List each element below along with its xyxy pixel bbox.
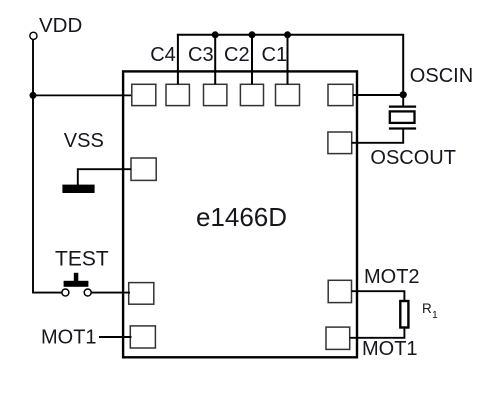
svg-text:VSS: VSS bbox=[64, 130, 104, 152]
wire C2 pad to bus bbox=[251, 35, 253, 85]
wire switch to TEST pad bbox=[91, 292, 130, 294]
pad MOT2 bbox=[328, 280, 351, 302]
label R1 bbox=[422, 301, 438, 321]
wire VDD rail to switch bbox=[32, 292, 62, 294]
pad OSCOUT bbox=[328, 132, 352, 154]
svg-text:e1466D: e1466D bbox=[196, 202, 287, 232]
junction VDD rail / pad wire bbox=[30, 92, 37, 99]
svg-text:MOT2: MOT2 bbox=[364, 266, 420, 288]
ground VSS (bar) bbox=[62, 185, 94, 193]
junction bus/C1 bbox=[284, 31, 291, 38]
IC U1 e1466D body bbox=[123, 71, 357, 357]
svg-text:OSCIN: OSCIN bbox=[410, 65, 473, 87]
pad MOT1 left bbox=[130, 326, 155, 348]
wire VSS pad to ground bbox=[78, 169, 131, 185]
junction bus/C3 bbox=[212, 31, 219, 38]
pad C4 bbox=[166, 84, 189, 105]
pad C1 bbox=[276, 84, 300, 105]
wire VDD vertical rail bbox=[32, 39, 34, 293]
wire C3 pad to bus bbox=[214, 35, 216, 85]
svg-text:MOT1: MOT1 bbox=[41, 327, 97, 349]
pad MOT1 right bbox=[326, 327, 350, 349]
wire crystal to OSCOUT pad bbox=[352, 142, 404, 144]
svg-text:C3: C3 bbox=[188, 44, 214, 66]
pad OSCIN bbox=[328, 84, 353, 105]
resistor R1 bbox=[400, 301, 408, 328]
junction bus/C2 bbox=[249, 31, 256, 38]
pad C3 bbox=[204, 84, 227, 105]
svg-text:C2: C2 bbox=[224, 44, 250, 66]
wire OSCIN pad to node bbox=[353, 94, 404, 96]
pad TEST bbox=[129, 283, 154, 305]
svg-text:MOT1: MOT1 bbox=[362, 338, 418, 360]
wire C1 pad to bus bbox=[287, 35, 289, 85]
wire MOT1 label to pad bbox=[99, 336, 132, 338]
pad VSS bbox=[131, 158, 156, 180]
wire MOT2 pad to R1 bbox=[352, 291, 405, 302]
pad P1 (VDD) bbox=[132, 84, 156, 105]
switch S1 TEST pushbutton bbox=[62, 273, 91, 296]
terminal VDD (open circle) bbox=[30, 32, 37, 39]
wire top bus horizontal bbox=[177, 34, 403, 36]
svg-text:TEST: TEST bbox=[55, 248, 109, 271]
wire VDD rail to pad P1 bbox=[33, 94, 133, 96]
svg-text:C1: C1 bbox=[262, 44, 288, 66]
svg-text:OSCOUT: OSCOUT bbox=[370, 147, 456, 169]
svg-text:VDD: VDD bbox=[39, 14, 82, 37]
svg-text:R: R bbox=[422, 301, 432, 316]
wire C4 pad to bus bbox=[177, 34, 179, 84]
junction OSCIN node bbox=[400, 91, 407, 98]
svg-text:1: 1 bbox=[432, 309, 438, 321]
pad C2 bbox=[240, 84, 263, 105]
wire bus down to OSCIN node bbox=[402, 34, 404, 95]
wire R1 to MOT1 right pad bbox=[350, 327, 405, 338]
crystal X1 bbox=[389, 95, 416, 143]
svg-text:C4: C4 bbox=[150, 44, 176, 66]
